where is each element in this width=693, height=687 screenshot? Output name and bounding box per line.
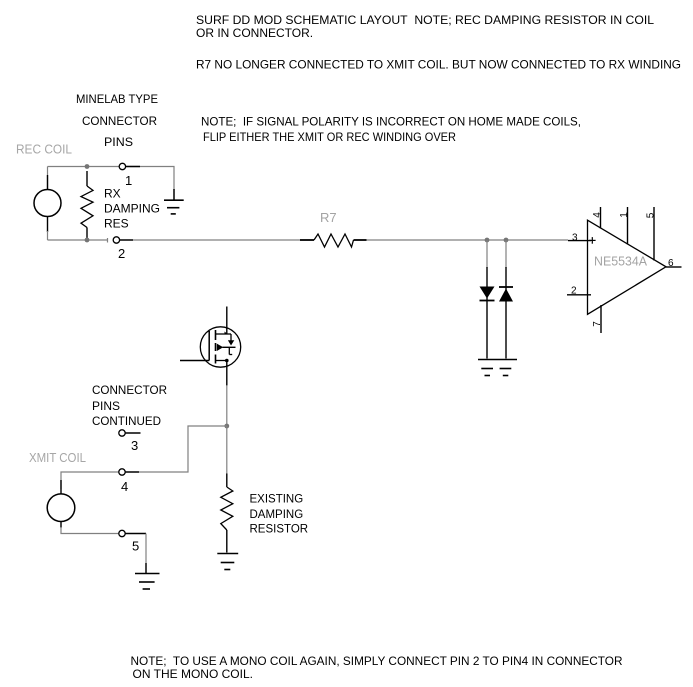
svg-text:EXISTING: EXISTING <box>250 494 304 506</box>
pin 4 connector circle <box>119 469 139 475</box>
node junction dot rec top <box>85 164 90 169</box>
wire rec top horizontal <box>48 166 120 168</box>
svg-text:R7: R7 <box>320 210 337 225</box>
transistor Q1 drain connection <box>216 332 232 335</box>
svg-text:PINS: PINS <box>104 135 133 149</box>
svg-text:XMIT COIL: XMIT COIL <box>29 450 86 465</box>
pin 7 stub opamp <box>600 305 602 333</box>
ground pin5 <box>135 563 160 589</box>
label CONNECTOR PINS CONTINUED <box>92 383 167 428</box>
svg-text:PINS: PINS <box>92 399 120 413</box>
svg-text:OR IN CONNECTOR.: OR IN CONNECTOR. <box>196 26 313 40</box>
ground diodes <box>478 360 517 376</box>
wire pin1 to ground corner <box>126 167 174 191</box>
label MINELAB TYPE CONNECTOR PINS <box>76 92 158 149</box>
wire rec coil left top lead black <box>47 175 49 190</box>
pin 4 stub opamp <box>600 207 602 229</box>
svg-text:3: 3 <box>131 438 138 453</box>
inductor XMIT coil circle <box>47 494 75 522</box>
note signal polarity text <box>201 114 581 144</box>
op-amp plus input marker <box>589 237 596 244</box>
diode D2 up <box>499 267 513 359</box>
wire rec coil left top lead <box>47 167 49 190</box>
node junction dot rec bottom <box>85 238 90 243</box>
svg-text:DAMPING: DAMPING <box>250 509 304 521</box>
transistor Q1 source connection <box>216 359 229 363</box>
ground pin1 branch <box>164 189 184 214</box>
svg-text:FLIP EITHER THE XMIT OR REC WI: FLIP EITHER THE XMIT OR REC WINDING OVER <box>203 130 456 144</box>
pin number 3 <box>131 438 138 453</box>
pin 1 connector circle <box>119 163 140 169</box>
svg-text:RX: RX <box>104 187 121 201</box>
label NE5534A <box>594 254 647 269</box>
wire rec coil left bottom lead black <box>47 217 49 233</box>
svg-text:SURF DD MOD SCHEMATIC LAYOUT: SURF DD MOD SCHEMATIC LAYOUT NOTE; REC D… <box>196 13 654 27</box>
wire main horizontal net pin2 to R7 <box>133 239 300 241</box>
resistor existing damping top lead <box>226 474 228 488</box>
pin 5 stub opamp <box>653 207 655 261</box>
note bottom text <box>131 654 623 681</box>
wire xmit coil bottom to pin5 <box>61 527 118 534</box>
svg-text:4: 4 <box>121 479 128 494</box>
resistor existing damping bottom lead <box>226 530 228 553</box>
pin number 1 opamp <box>619 212 630 218</box>
pin number 1 <box>125 173 132 188</box>
inductor REC coil circle <box>34 190 61 217</box>
svg-text:1: 1 <box>125 173 132 188</box>
resistor R7 <box>300 234 367 247</box>
svg-text:ON THE MONO COIL.: ON THE MONO COIL. <box>133 667 253 681</box>
svg-text:5: 5 <box>132 539 139 554</box>
pin number 3 opamp <box>572 233 578 244</box>
svg-text:7: 7 <box>592 321 603 327</box>
label EXISTING DAMPING RESISTOR <box>250 494 309 536</box>
resistor RX damping top lead <box>86 171 88 186</box>
pin 3 connector circle <box>119 430 141 436</box>
pin number 7 opamp <box>592 321 603 327</box>
transistor Q1 mosfet drain wire top <box>226 307 228 335</box>
wire mosfet source down gray <box>226 385 228 426</box>
svg-text:NE5534A: NE5534A <box>594 254 647 269</box>
wire pin5 to ground <box>145 534 147 573</box>
transistor Q1 gate bar <box>208 331 210 361</box>
node junction dot diode left <box>485 238 490 243</box>
svg-text:MINELAB TYPE: MINELAB TYPE <box>76 92 158 106</box>
label RX DAMPING RES <box>104 187 160 231</box>
svg-text:4: 4 <box>592 212 603 218</box>
svg-text:REC COIL: REC COIL <box>16 142 72 157</box>
wire diode right vertical gray <box>505 240 507 268</box>
svg-text:CONNECTOR: CONNECTOR <box>92 383 167 397</box>
wire end tick before pin2 <box>107 238 109 243</box>
pin 3 stub <box>568 240 591 242</box>
svg-text:CONNECTOR: CONNECTOR <box>82 114 157 128</box>
transistor Q1 channel dashes <box>215 330 217 364</box>
node junction dot mosfet source net <box>224 424 229 429</box>
note R7 text <box>196 58 681 72</box>
pin 2 connector circle <box>113 237 133 243</box>
svg-text:DAMPING: DAMPING <box>104 202 160 216</box>
label REC COIL <box>16 142 72 157</box>
svg-text:RESISTOR: RESISTOR <box>250 524 309 536</box>
note top title text <box>196 13 654 40</box>
svg-text:RES: RES <box>104 217 129 231</box>
transistor Q1 mosfet circle <box>200 327 240 367</box>
pin number 5 <box>132 539 139 554</box>
pin number 4 <box>121 479 128 494</box>
wire mosfet source down black <box>226 361 228 387</box>
wire xmit coil bottom lead black <box>60 522 62 529</box>
transistor Q1 gate lead <box>180 360 209 362</box>
wire xmit coil to pin4 <box>61 472 119 489</box>
pin number 6 opamp <box>668 258 674 269</box>
pin number 2 <box>118 246 125 261</box>
svg-text:NOTE; TO USE A MONO COIL AGAI: NOTE; TO USE A MONO COIL AGAIN, SIMPLY C… <box>131 654 623 668</box>
node junction dot diode right <box>504 238 509 243</box>
svg-text:R7 NO LONGER CONNECTED TO XMIT: R7 NO LONGER CONNECTED TO XMIT COIL. BUT… <box>196 58 681 72</box>
ground existing damping <box>217 554 238 570</box>
pin 2 stub opamp <box>567 294 591 296</box>
wire pin4 to source net <box>139 426 227 472</box>
svg-text:6: 6 <box>668 258 674 269</box>
svg-text:1: 1 <box>619 212 630 218</box>
wire rec coil left bottom lead gray <box>47 231 49 240</box>
resistor RX damping zigzag <box>81 186 93 228</box>
svg-text:2: 2 <box>571 286 577 297</box>
wire rec bottom horizontal <box>48 239 108 241</box>
svg-text:CONTINUED: CONTINUED <box>92 414 161 428</box>
svg-text:2: 2 <box>118 246 125 261</box>
label R7 <box>320 210 337 225</box>
svg-text:NOTE; IF SIGNAL POLARITY IS I: NOTE; IF SIGNAL POLARITY IS INCORRECT ON… <box>201 114 581 128</box>
pin number 5 opamp <box>646 212 657 218</box>
label XMIT COIL <box>29 450 86 465</box>
wire xmit coil top lead black <box>60 480 62 495</box>
resistor RX damping bottom lead <box>86 228 88 240</box>
svg-text:3: 3 <box>572 233 578 244</box>
wire source net down to resistor <box>226 426 228 474</box>
pin 6 output stub <box>666 266 682 268</box>
pin 5 connector circle <box>119 530 146 536</box>
svg-text:5: 5 <box>646 212 657 218</box>
op-amp U1 NE5534A triangle <box>588 220 667 314</box>
pin number 4 opamp <box>592 212 603 218</box>
wire main horizontal net R7 to opamp <box>367 239 569 241</box>
transistor Q1 source arrow <box>217 344 236 351</box>
transistor Q1 body diode <box>228 334 234 355</box>
diode D1 down <box>480 267 495 359</box>
wire diode left vertical gray <box>486 240 488 268</box>
pin number 2 opamp <box>571 286 577 297</box>
pin 1 stub opamp <box>627 207 629 245</box>
resistor existing damping zigzag <box>221 487 233 530</box>
